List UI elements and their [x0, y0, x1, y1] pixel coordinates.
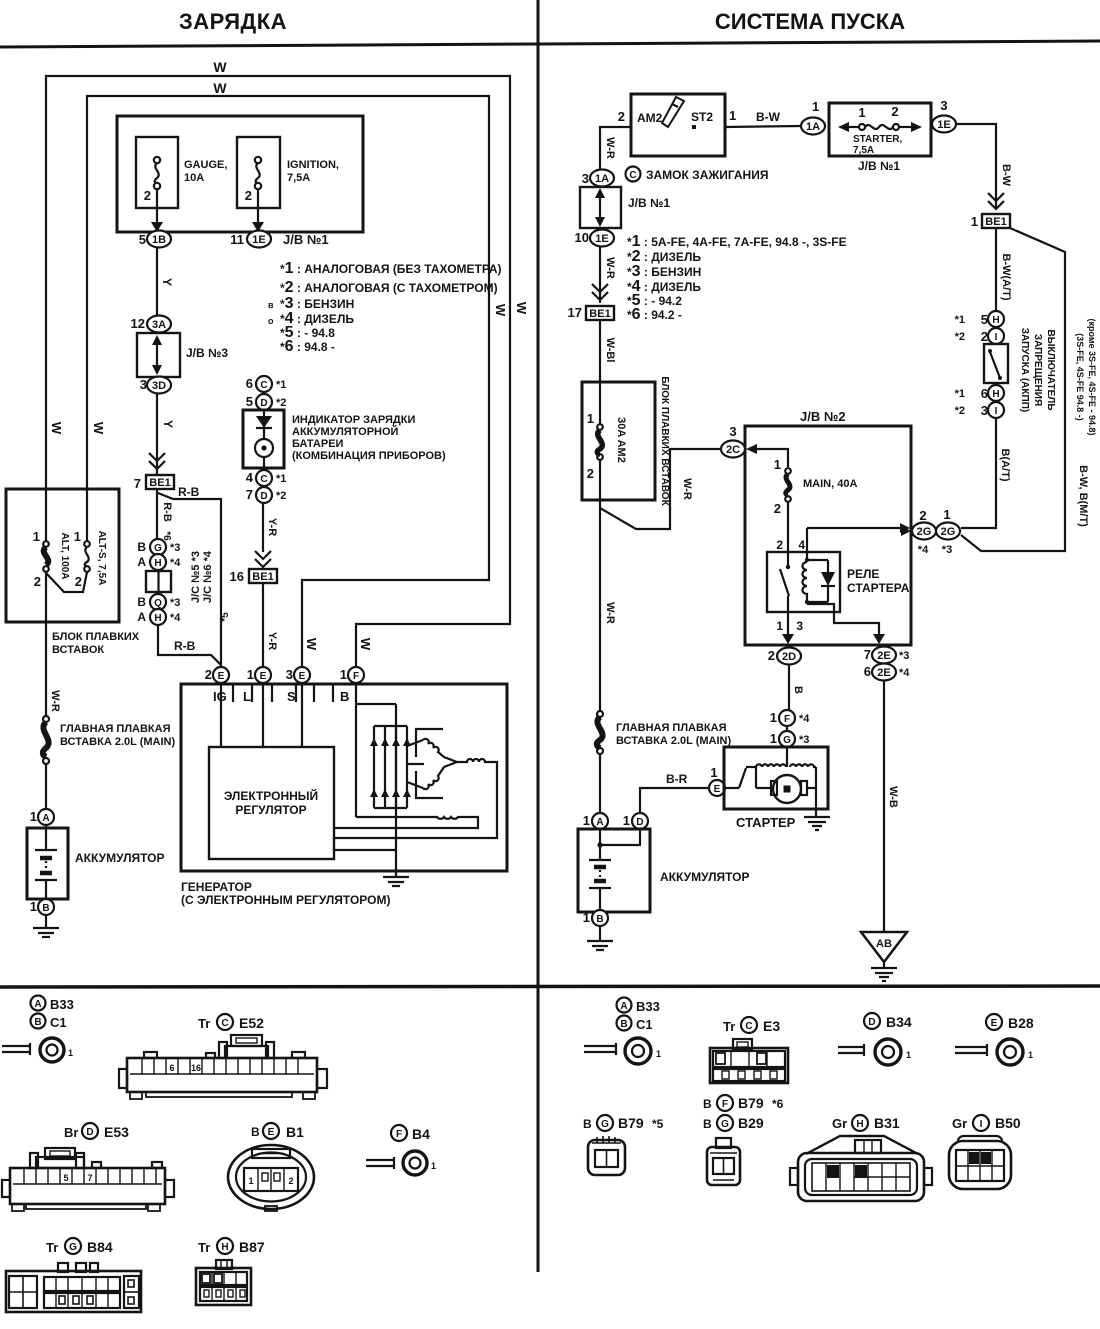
svg-text:*1: *1: [276, 379, 286, 391]
svg-text:C1: C1: [636, 1017, 653, 1032]
svg-text:1: 1: [906, 1050, 911, 1060]
connector code B C1 left: [31, 1014, 46, 1029]
svg-text:C: C: [221, 1018, 228, 1029]
svg-text:ГЛАВНАЯ ПЛАВКАЯ: ГЛАВНАЯ ПЛАВКАЯ: [616, 722, 727, 734]
starter solenoid contact: [724, 787, 739, 789]
key symbol: [662, 97, 684, 127]
junction box J/B No1 right: [580, 187, 621, 228]
svg-text:D: D: [868, 1017, 875, 1028]
svg-text:Y: Y: [161, 420, 175, 428]
svg-text:1A: 1A: [806, 121, 820, 133]
svg-text:B: B: [34, 1017, 41, 1028]
arrow into BE1: [149, 453, 165, 469]
svg-text:J/B №1: J/B №1: [283, 232, 329, 247]
svg-text:A: A: [137, 555, 146, 569]
svg-text:B79: B79: [738, 1095, 764, 1111]
svg-text:B-W(А/Т): B-W(А/Т): [1000, 253, 1012, 300]
svg-text:16: 16: [191, 1063, 201, 1073]
svg-text:1: 1: [776, 619, 783, 633]
svg-text:B: B: [596, 914, 603, 925]
svg-text:J/C №6 *4: J/C №6 *4: [202, 550, 214, 603]
svg-text:C: C: [260, 474, 267, 485]
wire L to regulator: [262, 684, 264, 747]
diode symbol: [256, 416, 272, 428]
svg-text:D: D: [260, 398, 267, 409]
wire B-W 1E down: [956, 124, 996, 208]
svg-text:1: 1: [587, 411, 594, 426]
svg-text:10: 10: [575, 230, 589, 245]
svg-text:B-R: B-R: [666, 772, 688, 786]
wire MAIN fuse to relay: [787, 502, 789, 567]
svg-text:A: A: [42, 813, 49, 824]
svg-text:*2: *2: [955, 405, 965, 417]
svg-text:I: I: [995, 406, 998, 417]
svg-text:B33: B33: [50, 997, 74, 1012]
svg-text:Gr: Gr: [832, 1116, 847, 1131]
svg-text:2G: 2G: [917, 526, 932, 538]
fusible link 30A AM2: [599, 382, 601, 424]
svg-text:F: F: [722, 1099, 728, 1110]
svg-text:Tr: Tr: [46, 1240, 58, 1255]
svg-text:ГЕНЕРАТОР: ГЕНЕРАТОР: [181, 880, 252, 894]
fusible link ALT 100A: [45, 489, 47, 541]
svg-text:1E: 1E: [252, 234, 265, 246]
svg-text:AB: AB: [876, 938, 892, 950]
connector B84 drawing: [6, 1263, 141, 1312]
svg-text:7: 7: [246, 487, 253, 502]
terminal slot ticks: [233, 684, 333, 702]
connector B79-5 drawing: [588, 1136, 625, 1175]
battery box right: [578, 829, 650, 912]
svg-text:W: W: [358, 638, 373, 651]
svg-text:IGNITION,: IGNITION,: [287, 159, 339, 171]
svg-text:2D: 2D: [782, 651, 796, 663]
fusible link ALT-S 7.5A: [86, 489, 88, 541]
svg-text:*1 : АНАЛОГОВАЯ (БЕЗ ТАХОМЕТРА: *1 : АНАЛОГОВАЯ (БЕЗ ТАХОМЕТРА): [280, 260, 502, 277]
svg-text:W: W: [213, 80, 227, 96]
svg-text:W-Bl: W-Bl: [604, 338, 616, 363]
svg-text:BE1: BE1: [589, 308, 610, 320]
svg-text:*2 : АНАЛОГОВАЯ (С ТАХОМЕТРОМ): *2 : АНАЛОГОВАЯ (С ТАХОМЕТРОМ): [280, 279, 498, 296]
svg-text:1B: 1B: [152, 234, 166, 246]
svg-text:ЗАПУСКА (АКПП): ЗАПУСКА (АКПП): [1019, 328, 1030, 412]
svg-text:3: 3: [940, 98, 947, 113]
wire W-R branch to 2C: [600, 449, 721, 529]
wire D to junction: [600, 829, 640, 845]
svg-text:1: 1: [710, 765, 717, 780]
svg-text:W: W: [91, 422, 106, 435]
connector code F B4: [391, 1125, 407, 1141]
svg-text:в: в: [268, 300, 274, 310]
svg-text:D: D: [636, 817, 643, 828]
svg-text:(КОМБИНАЦИЯ ПРИБОРОВ): (КОМБИНАЦИЯ ПРИБОРОВ): [292, 450, 446, 462]
svg-text:C: C: [260, 380, 267, 391]
svg-text:B-W, B(M/T): B-W, B(M/T): [1077, 465, 1089, 527]
splice J/C box: [146, 571, 171, 592]
svg-text:W-R: W-R: [681, 478, 693, 500]
svg-text:*3: *3: [899, 650, 909, 662]
svg-text:B: B: [703, 1117, 712, 1131]
svg-text:5: 5: [63, 1173, 68, 1183]
svg-text:ЗАПРЕЩЕНИЯ: ЗАПРЕЩЕНИЯ: [1032, 334, 1043, 406]
svg-text:1: 1: [74, 529, 81, 544]
svg-text:STARTER,: STARTER,: [853, 134, 902, 145]
svg-text:Q: Q: [154, 598, 162, 609]
svg-text:E: E: [260, 671, 267, 682]
svg-text:G: G: [721, 1119, 729, 1130]
fuse box STARTER 7.5A: [829, 103, 931, 156]
ring terminal B34: [838, 1044, 864, 1056]
svg-text:I: I: [980, 1119, 983, 1130]
svg-text:G: G: [154, 543, 162, 554]
svg-text:1: 1: [858, 105, 865, 120]
svg-text:АККУМУЛЯТОР: АККУМУЛЯТОР: [75, 851, 165, 865]
svg-text:H: H: [856, 1119, 863, 1130]
bottom section rule: [0, 986, 1100, 987]
svg-text:3: 3: [286, 667, 293, 682]
neutral start switch box: [984, 344, 1008, 383]
svg-text:*6 : 94.8 -: *6 : 94.8 -: [280, 338, 335, 355]
fuse IGNITION 7.5A: [237, 137, 280, 208]
svg-text:W: W: [304, 638, 319, 651]
svg-text:РЕГУЛЯТОР: РЕГУЛЯТОР: [235, 803, 306, 817]
svg-text:1: 1: [431, 1161, 436, 1171]
connector code D B34: [864, 1013, 880, 1029]
svg-text:1E: 1E: [937, 119, 950, 131]
wire R-B branch BE1 to 2E: [158, 493, 221, 667]
svg-text:B4: B4: [412, 1126, 430, 1142]
svg-text:B(А/Т): B(А/Т): [999, 449, 1011, 482]
svg-text:A: A: [620, 1001, 627, 1012]
regulator box: [209, 747, 334, 859]
generator box: [181, 684, 507, 871]
ground generator: [383, 871, 409, 886]
svg-text:A: A: [596, 817, 603, 828]
connector code A B33 right: [617, 998, 632, 1013]
ground battery right: [587, 926, 613, 950]
svg-text:5: 5: [139, 232, 146, 247]
svg-text:1: 1: [729, 108, 736, 123]
svg-text:7: 7: [864, 647, 871, 662]
svg-text:Tr: Tr: [723, 1019, 735, 1034]
svg-text:2: 2: [891, 104, 898, 119]
wire W-Bl BE1 to fuse block: [599, 320, 601, 382]
svg-text:H: H: [154, 558, 161, 569]
ring terminal B4: [366, 1157, 394, 1169]
connector B31 drawing: [790, 1136, 932, 1201]
svg-text:3: 3: [582, 171, 589, 186]
svg-text:H: H: [992, 389, 999, 400]
wire S to regulator: [301, 684, 303, 747]
svg-text:(3S-FE, 4S-FE 94.8 -): (3S-FE, 4S-FE 94.8 -): [1075, 333, 1085, 421]
wire 2C to MAIN fuse: [757, 449, 788, 467]
svg-text:1: 1: [248, 1176, 253, 1186]
svg-text:1: 1: [770, 731, 777, 746]
svg-text:о: о: [268, 316, 274, 326]
svg-text:1: 1: [247, 667, 254, 682]
wire R-B H to 2E: [158, 625, 221, 665]
wire Y 3D to BE1: [156, 394, 158, 474]
svg-text:1: 1: [68, 1048, 73, 1058]
svg-text:Tr: Tr: [198, 1016, 210, 1031]
main fusible link 2.0L left: [43, 716, 49, 722]
svg-text:B: B: [583, 1117, 592, 1131]
svg-text:1: 1: [623, 813, 630, 828]
svg-text:*6: *6: [772, 1097, 784, 1111]
svg-text:B: B: [340, 689, 349, 704]
svg-text:*6 : 94.2 -: *6 : 94.2 -: [627, 306, 682, 323]
svg-text:3A: 3A: [152, 319, 166, 331]
relay coil out to 2E: [807, 602, 879, 634]
battery cells right: [599, 829, 601, 910]
wire bypass B-W B(M/T): [961, 228, 1065, 551]
connector B87 drawing: [196, 1260, 251, 1305]
svg-text:E52: E52: [239, 1015, 264, 1031]
svg-text:H: H: [221, 1242, 228, 1253]
svg-text:B-W: B-W: [756, 110, 781, 124]
svg-text:*4: *4: [799, 713, 810, 725]
svg-text:MAIN, 40A: MAIN, 40A: [803, 478, 857, 490]
svg-text:2: 2: [34, 574, 41, 589]
svg-text:IG: IG: [213, 689, 227, 704]
svg-text:1: 1: [340, 667, 347, 682]
svg-text:B1: B1: [286, 1124, 304, 1140]
svg-text:B: B: [620, 1019, 627, 1030]
svg-text:E: E: [218, 671, 225, 682]
ground battery left: [33, 915, 59, 937]
svg-text:2: 2: [587, 466, 594, 481]
svg-text:B31: B31: [874, 1115, 900, 1131]
svg-text:7,5A: 7,5A: [287, 172, 310, 184]
ground point AB: [861, 932, 907, 962]
connector E52 drawing: [119, 1035, 327, 1099]
svg-text:1: 1: [30, 809, 37, 824]
svg-text:РЕЛЕ: РЕЛЕ: [847, 567, 879, 581]
ring terminal B28: [955, 1044, 987, 1056]
svg-text:W-R: W-R: [604, 257, 616, 279]
svg-text:E3: E3: [763, 1018, 780, 1034]
field coil rotor: [334, 817, 478, 828]
svg-text:1A: 1A: [595, 173, 609, 185]
svg-text:2: 2: [919, 508, 926, 523]
junction box J/B No1 left: [117, 116, 363, 232]
svg-text:R-B: R-B: [178, 485, 200, 499]
svg-text:4: 4: [798, 538, 805, 552]
connector B50 drawing: [949, 1136, 1011, 1189]
fuse block box right: [582, 382, 655, 500]
wire G to coils: [786, 747, 788, 767]
svg-text:ЭЛЕКТРОННЫЙ: ЭЛЕКТРОННЫЙ: [224, 788, 318, 803]
svg-text:B28: B28: [1008, 1015, 1034, 1031]
svg-text:1: 1: [30, 899, 37, 914]
connector code B C1 right: [617, 1016, 632, 1031]
wire Y-R BE1 to 1E: [262, 583, 264, 667]
svg-text:E: E: [991, 1018, 998, 1029]
svg-text:W-B: W-B: [887, 786, 899, 808]
svg-text:2G: 2G: [941, 526, 956, 538]
junction box J/B No3: [137, 333, 180, 377]
wire B-R D to starter E: [640, 788, 708, 813]
svg-text:ЗАРЯДКА: ЗАРЯДКА: [179, 9, 287, 34]
svg-text:12: 12: [131, 316, 145, 331]
svg-text:10A: 10A: [184, 172, 204, 184]
svg-text:G: G: [69, 1242, 77, 1253]
label ignition lock: [626, 167, 641, 182]
svg-text:ВСТАВКА 2.0L (MAIN): ВСТАВКА 2.0L (MAIN): [60, 736, 175, 748]
svg-text:E: E: [714, 784, 721, 795]
svg-text:1: 1: [656, 1049, 661, 1059]
svg-text:1: 1: [1028, 1050, 1033, 1060]
connector E53 drawing: [2, 1148, 174, 1211]
svg-text:3: 3: [140, 377, 147, 392]
svg-text:Tr: Tr: [198, 1240, 210, 1255]
svg-text:C: C: [745, 1021, 752, 1032]
svg-text:C: C: [629, 170, 636, 181]
svg-text:D: D: [260, 491, 267, 502]
svg-text:*2: *2: [955, 331, 965, 343]
wire W-R from AM2: [600, 127, 631, 169]
svg-text:ВЫКЛЮЧАТЕЛЬ: ВЫКЛЮЧАТЕЛЬ: [1045, 329, 1056, 410]
svg-text:W: W: [49, 422, 64, 435]
svg-text:BE1: BE1: [149, 477, 170, 489]
svg-text:(кроме 3S-FE, 4S-FE - 94.8): (кроме 3S-FE, 4S-FE - 94.8): [1087, 318, 1097, 435]
svg-text:*1 : 5A-FE, 4A-FE, 7A-FE, 94.8: *1 : 5A-FE, 4A-FE, 7A-FE, 94.8 -, 3S-FE: [627, 233, 847, 250]
charge indicator lamp box: [243, 410, 284, 468]
svg-text:*5: *5: [220, 612, 231, 622]
svg-text:*4: *4: [170, 612, 181, 624]
svg-text:*3: *3: [799, 734, 809, 746]
center divider: [537, 0, 540, 1272]
relay contact: [786, 565, 790, 569]
svg-text:J/B №3: J/B №3: [186, 346, 228, 360]
starter hold-in coil: [790, 764, 816, 809]
svg-text:*4: *4: [899, 667, 910, 679]
battery cells: [35, 849, 57, 851]
svg-text:E: E: [268, 1127, 275, 1138]
svg-text:1: 1: [33, 529, 40, 544]
fuse STARTER: [859, 124, 865, 130]
svg-text:J/C №5 *3: J/C №5 *3: [190, 551, 202, 603]
svg-text:ALT, 100A: ALT, 100A: [59, 532, 70, 579]
svg-text:B: B: [792, 686, 804, 694]
svg-text:B: B: [703, 1097, 712, 1111]
svg-text:W-R: W-R: [604, 602, 616, 624]
svg-text:2: 2: [776, 538, 783, 552]
wire 2D to F G: [788, 665, 790, 710]
svg-text:L: L: [243, 689, 251, 704]
svg-text:ST2: ST2: [691, 110, 713, 124]
wire B-W(A/T) BE1 to neutral switch: [995, 228, 997, 311]
svg-text:H: H: [154, 613, 161, 624]
connector B29 drawing: [707, 1138, 740, 1185]
svg-text:3D: 3D: [152, 380, 166, 392]
svg-text:Y-R: Y-R: [266, 518, 278, 536]
svg-text:B: B: [42, 903, 49, 914]
junction box J/B No2: [745, 426, 911, 645]
svg-text:30A AM2: 30A AM2: [615, 417, 627, 463]
svg-text:D: D: [86, 1127, 93, 1138]
svg-text:B84: B84: [87, 1239, 113, 1255]
wire gauge fuse to 1B with arrow: [156, 189, 158, 224]
svg-text:СИСТЕМА ПУСКА: СИСТЕМА ПУСКА: [715, 9, 905, 34]
main fusible link 2.0L right: [597, 711, 603, 717]
svg-text:Br: Br: [64, 1125, 78, 1140]
svg-text:B87: B87: [239, 1239, 265, 1255]
svg-text:BE1: BE1: [252, 571, 273, 583]
svg-text:2: 2: [144, 188, 151, 203]
svg-text:J/B №1: J/B №1: [858, 159, 900, 173]
svg-text:(С ЭЛЕКТРОННЫМ РЕГУЛЯТОРОМ): (С ЭЛЕКТРОННЫМ РЕГУЛЯТОРОМ): [181, 893, 390, 907]
svg-text:6: 6: [864, 664, 871, 679]
svg-text:J/B №1: J/B №1: [628, 196, 670, 210]
svg-text:B-W: B-W: [1000, 164, 1012, 187]
wire W outer loop: [46, 76, 510, 667]
ring terminal B33/C1 left: [2, 1043, 30, 1055]
svg-text:*1: *1: [276, 473, 286, 485]
svg-text:ЗАМОК ЗАЖИГАНИЯ: ЗАМОК ЗАЖИГАНИЯ: [646, 168, 768, 182]
svg-text:1E: 1E: [595, 233, 608, 245]
svg-text:W-R: W-R: [604, 137, 616, 159]
svg-text:11: 11: [230, 232, 244, 247]
svg-text:3: 3: [729, 424, 736, 439]
svg-text:16: 16: [230, 569, 244, 584]
starter pull-in coil: [756, 764, 786, 767]
svg-text:Y-R: Y-R: [266, 632, 278, 650]
svg-text:БЛОК ПЛАВКИХ: БЛОК ПЛАВКИХ: [52, 631, 140, 643]
svg-text:*5: *5: [652, 1117, 664, 1131]
svg-text:7: 7: [134, 476, 141, 491]
svg-text:Y: Y: [160, 278, 174, 286]
wire Y-R to BE1: [262, 503, 264, 552]
svg-text:H: H: [992, 315, 999, 326]
svg-text:ГЛАВНАЯ ПЛАВКАЯ: ГЛАВНАЯ ПЛАВКАЯ: [60, 723, 171, 735]
svg-text:СТАРТЕРА: СТАРТЕРА: [847, 581, 910, 595]
wire W-R to main link: [45, 622, 47, 715]
svg-text:7,5A: 7,5A: [853, 145, 874, 156]
svg-text:F: F: [353, 671, 359, 682]
header rule: [0, 41, 1100, 47]
svg-text:АККУМУЛЯТОР: АККУМУЛЯТОР: [660, 870, 750, 884]
wire W-R fuse block to main link: [599, 460, 601, 711]
starter box: [724, 747, 828, 809]
svg-text:B: B: [137, 595, 146, 609]
svg-text:1: 1: [583, 910, 590, 925]
connector B1 drawing: [228, 1145, 314, 1211]
svg-text:БАТАРЕИ: БАТАРЕИ: [292, 438, 344, 450]
svg-text:3: 3: [796, 619, 803, 633]
wire BE1 down to G: [156, 489, 158, 539]
ignition switch box: [631, 94, 725, 156]
svg-text:E53: E53: [104, 1124, 129, 1140]
svg-text:AM2: AM2: [637, 111, 663, 125]
ground starter: [804, 809, 830, 830]
svg-text:ALT-S, 7,5A: ALT-S, 7,5A: [96, 531, 107, 586]
svg-text:B34: B34: [886, 1014, 912, 1030]
fusible link box ALT: [6, 489, 119, 622]
svg-text:B: B: [137, 540, 146, 554]
svg-text:2C: 2C: [726, 444, 740, 456]
relay coil: [806, 528, 808, 560]
svg-text:2: 2: [618, 109, 625, 124]
svg-text:A: A: [34, 999, 41, 1010]
svg-text:2: 2: [774, 501, 781, 516]
fuse GAUGE 10A: [136, 137, 178, 208]
svg-text:C1: C1: [50, 1015, 67, 1030]
svg-text:1: 1: [943, 507, 950, 522]
connector code E B28: [986, 1014, 1002, 1030]
svg-text:J/B №2: J/B №2: [800, 409, 846, 424]
svg-text:6: 6: [169, 1063, 174, 1073]
